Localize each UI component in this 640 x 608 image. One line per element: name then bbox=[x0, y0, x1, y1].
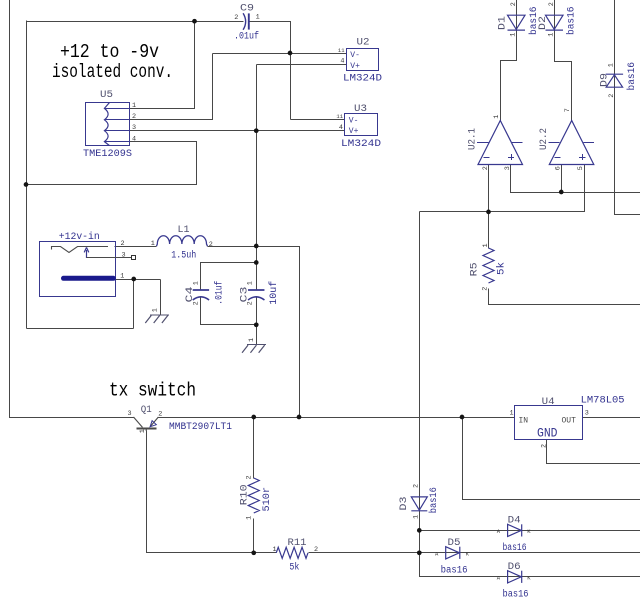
svg-text:1: 1 bbox=[493, 115, 501, 119]
svg-text:4: 4 bbox=[132, 135, 136, 143]
svg-text:1: 1 bbox=[246, 516, 254, 520]
wire U4 gnd pin bbox=[547, 440, 640, 464]
ground bbox=[145, 315, 169, 323]
svg-text:LM78L05: LM78L05 bbox=[581, 396, 625, 407]
op-amp U2.2 bbox=[548, 121, 594, 165]
svg-text:V-: V- bbox=[349, 116, 359, 125]
svg-text:C4: C4 bbox=[185, 287, 196, 303]
svg-text:D5: D5 bbox=[448, 538, 461, 549]
wire R11 connections bbox=[254, 552, 640, 554]
node C4/C3 bottom bbox=[254, 322, 259, 327]
svg-text:1: 1 bbox=[193, 281, 201, 285]
node D3 anode / D5 line bbox=[417, 550, 422, 555]
svg-text:bas16: bas16 bbox=[441, 564, 468, 576]
svg-text:U2.2: U2.2 bbox=[539, 128, 550, 150]
thick bar pin 1 of connector bbox=[61, 276, 116, 281]
svg-text:3: 3 bbox=[128, 410, 132, 418]
svg-text:1: 1 bbox=[412, 515, 420, 519]
wire Q1 collector main bbox=[158, 417, 515, 419]
node U2.2 pin6 bbox=[559, 190, 564, 195]
svg-text:1: 1 bbox=[151, 240, 155, 248]
svg-text:U3: U3 bbox=[354, 104, 367, 115]
diode D6 bas16 bbox=[508, 571, 522, 583]
svg-text:1: 1 bbox=[256, 14, 260, 22]
jack contact of connector bbox=[52, 247, 109, 253]
resistor R10 510r bbox=[248, 478, 259, 513]
resistor R11 5k bbox=[276, 547, 308, 558]
node top edge / U5 pin1 bbox=[192, 19, 197, 24]
wire C3 branch to ground bbox=[256, 263, 258, 345]
node R5 top / U2.1 pin2 bbox=[486, 210, 491, 215]
svg-text:bas16: bas16 bbox=[428, 487, 440, 513]
node L1 drop / tx bbox=[297, 415, 302, 420]
wire C4 branch bbox=[201, 263, 257, 325]
node D3 cathode / D4 bbox=[417, 528, 422, 533]
svg-text:U2.1: U2.1 bbox=[468, 128, 479, 150]
svg-text:1.5uh: 1.5uh bbox=[171, 249, 196, 261]
svg-text:5k: 5k bbox=[289, 562, 299, 574]
svg-text:4: 4 bbox=[340, 58, 344, 66]
node frame / U5 pin4 bbox=[24, 182, 29, 187]
svg-text:2: 2 bbox=[482, 166, 490, 170]
node V- rail bbox=[288, 51, 293, 56]
svg-text:.01uf: .01uf bbox=[214, 281, 226, 305]
svg-text:R5: R5 bbox=[470, 262, 481, 276]
wire U2.2 output to D2 bbox=[555, 0, 572, 121]
svg-text:V-: V- bbox=[350, 51, 360, 60]
connector J1 +12v-in bbox=[40, 242, 116, 297]
svg-text:1: 1 bbox=[547, 33, 555, 37]
svg-text:7: 7 bbox=[564, 108, 572, 112]
ground bbox=[242, 345, 266, 353]
regulator U4 LM78L05 bbox=[515, 406, 583, 440]
wire U4 input drop bbox=[463, 418, 640, 500]
svg-text:5: 5 bbox=[577, 166, 585, 170]
diode D3 bas16 bbox=[411, 497, 427, 511]
svg-text:2: 2 bbox=[132, 113, 136, 121]
svg-text:GND: GND bbox=[537, 425, 558, 440]
svg-text:1: 1 bbox=[482, 243, 490, 247]
svg-text:2: 2 bbox=[482, 287, 490, 291]
node connector pin1 bbox=[131, 277, 136, 282]
svg-text:V+: V+ bbox=[350, 62, 360, 71]
svg-text:+12v-in: +12v-in bbox=[59, 231, 100, 243]
svg-text:MMBT2907LT1: MMBT2907LT1 bbox=[169, 422, 232, 433]
wire U5 pin2 to V- node bbox=[130, 54, 213, 120]
svg-text:U5: U5 bbox=[100, 90, 113, 101]
wire R5 connections bbox=[489, 212, 640, 305]
svg-text:2: 2 bbox=[608, 94, 616, 98]
svg-text:1: 1 bbox=[247, 281, 255, 285]
wire D3 vertical chain bbox=[420, 212, 640, 577]
diode D2 bas16 bbox=[546, 15, 564, 30]
pin 3 stub and square pad bbox=[87, 257, 132, 259]
svg-text:2: 2 bbox=[412, 484, 420, 488]
svg-text:D3: D3 bbox=[399, 497, 410, 511]
power symbol U3 LM324D bbox=[345, 114, 378, 136]
svg-text:2: 2 bbox=[247, 301, 255, 305]
capacitor C3 10uf bbox=[248, 290, 264, 300]
svg-text:LM324D: LM324D bbox=[343, 74, 382, 85]
svg-text:R11: R11 bbox=[288, 538, 307, 549]
svg-text:D6: D6 bbox=[508, 562, 521, 573]
diode D1 bas16 bbox=[508, 15, 526, 30]
diode D9 bas16 bbox=[606, 74, 623, 87]
svg-text:D2: D2 bbox=[538, 16, 549, 30]
svg-text:4: 4 bbox=[339, 124, 343, 132]
svg-text:1: 1 bbox=[510, 409, 514, 417]
wire R10 connections bbox=[253, 418, 255, 553]
svg-text:D1: D1 bbox=[498, 16, 509, 30]
svg-text:IN: IN bbox=[519, 416, 529, 425]
svg-text:1: 1 bbox=[132, 102, 136, 110]
svg-text:2: 2 bbox=[209, 241, 213, 249]
svg-text:3: 3 bbox=[132, 124, 136, 132]
svg-text:510r: 510r bbox=[262, 487, 273, 512]
svg-text:.01uf: .01uf bbox=[234, 31, 259, 43]
resistor R5 5k bbox=[483, 248, 494, 283]
wire ground frame net bbox=[27, 21, 244, 329]
svg-text:tx switch: tx switch bbox=[109, 380, 196, 402]
svg-text:1: 1 bbox=[248, 338, 256, 342]
wire opamp minus inputs bbox=[420, 165, 585, 212]
wire U5 pin4 to frame bbox=[27, 142, 197, 185]
node R10 top bbox=[251, 415, 256, 420]
wire C9 right to V- rail bbox=[213, 22, 347, 120]
svg-text:1: 1 bbox=[120, 272, 124, 280]
svg-text:LM324D: LM324D bbox=[341, 139, 381, 150]
emitter arrow of Q1 bbox=[150, 421, 156, 427]
svg-text:1: 1 bbox=[139, 429, 147, 433]
svg-text:D9: D9 bbox=[599, 73, 610, 87]
wire U2.1 output to D1 bbox=[501, 0, 517, 121]
op-amp U2.1 bbox=[477, 121, 522, 165]
transformer U5 TME1209S bbox=[86, 103, 130, 146]
svg-text:2: 2 bbox=[245, 475, 253, 479]
wire opamp plus inputs to right edge bbox=[511, 165, 640, 193]
svg-text:3: 3 bbox=[504, 166, 512, 170]
diode D4 bas16 bbox=[508, 524, 522, 536]
svg-text:bas16: bas16 bbox=[626, 62, 638, 91]
svg-text:3: 3 bbox=[122, 251, 126, 259]
capacitor C9 bbox=[243, 13, 249, 30]
svg-text:bas16: bas16 bbox=[503, 542, 527, 554]
node L1 output bbox=[254, 244, 259, 249]
svg-text:2: 2 bbox=[510, 2, 518, 6]
wire connector pin2 to L1 bbox=[115, 246, 157, 248]
svg-text:Q1: Q1 bbox=[141, 405, 152, 416]
wire Q1 base to R10 bottom bbox=[147, 431, 254, 553]
svg-text:U2: U2 bbox=[357, 38, 370, 49]
node C4/C3 top bbox=[254, 260, 259, 265]
svg-text:2: 2 bbox=[193, 301, 201, 305]
svg-text:1: 1 bbox=[273, 546, 277, 554]
svg-text:bas16: bas16 bbox=[503, 588, 529, 600]
wire U4 output bbox=[583, 417, 640, 419]
svg-text:2: 2 bbox=[158, 411, 162, 419]
svg-text:1: 1 bbox=[608, 63, 616, 67]
svg-text:11: 11 bbox=[338, 47, 345, 54]
svg-text:1: 1 bbox=[509, 33, 517, 37]
wire U5 pin3 +V rail bbox=[130, 65, 347, 263]
svg-text:2: 2 bbox=[234, 14, 238, 22]
svg-text:OUT: OUT bbox=[562, 416, 577, 425]
svg-text:+12 to -9v: +12 to -9v bbox=[60, 41, 159, 63]
svg-text:10uf: 10uf bbox=[268, 281, 280, 305]
svg-text:2: 2 bbox=[548, 2, 556, 6]
svg-text:R10: R10 bbox=[240, 484, 251, 505]
wire U5 pin1 to top edge bbox=[130, 22, 195, 109]
wire L1 out down to tx node bbox=[208, 247, 300, 418]
svg-text:D4: D4 bbox=[508, 516, 521, 527]
svg-text:6: 6 bbox=[554, 166, 562, 170]
svg-text:11: 11 bbox=[336, 113, 343, 120]
svg-text:U4: U4 bbox=[542, 397, 555, 408]
svg-text:bas16: bas16 bbox=[565, 7, 577, 36]
svg-text:V+: V+ bbox=[349, 127, 359, 136]
svg-text:TME1209S: TME1209S bbox=[83, 149, 132, 160]
node U4 input bbox=[460, 415, 465, 420]
inductor L1 1.5uh bbox=[157, 236, 208, 246]
wire left rail (Q1 emitter feed) bbox=[10, 0, 134, 418]
svg-text:C3: C3 bbox=[240, 287, 251, 303]
svg-text:L1: L1 bbox=[178, 225, 190, 236]
svg-text:3: 3 bbox=[585, 409, 589, 417]
svg-text:5k: 5k bbox=[495, 262, 507, 275]
diode D5 bas16 bbox=[446, 547, 460, 559]
svg-text:2: 2 bbox=[314, 546, 318, 554]
power symbol U2 LM324D bbox=[347, 49, 379, 71]
wire D4 line bbox=[420, 530, 640, 532]
svg-text:isolated conv.: isolated conv. bbox=[52, 61, 173, 83]
node +V rail / U5 pin3 bbox=[254, 128, 259, 133]
svg-text:1: 1 bbox=[152, 308, 160, 312]
capacitor C4 .01uf bbox=[193, 290, 209, 300]
svg-text:C9: C9 bbox=[240, 4, 254, 15]
node R10 bottom / R11 bbox=[251, 550, 256, 555]
transistor Q1 MMBT2907LT1 bbox=[134, 417, 159, 431]
svg-text:2: 2 bbox=[121, 240, 125, 248]
svg-text:2: 2 bbox=[540, 444, 548, 448]
wire D9 net bbox=[615, 0, 640, 215]
